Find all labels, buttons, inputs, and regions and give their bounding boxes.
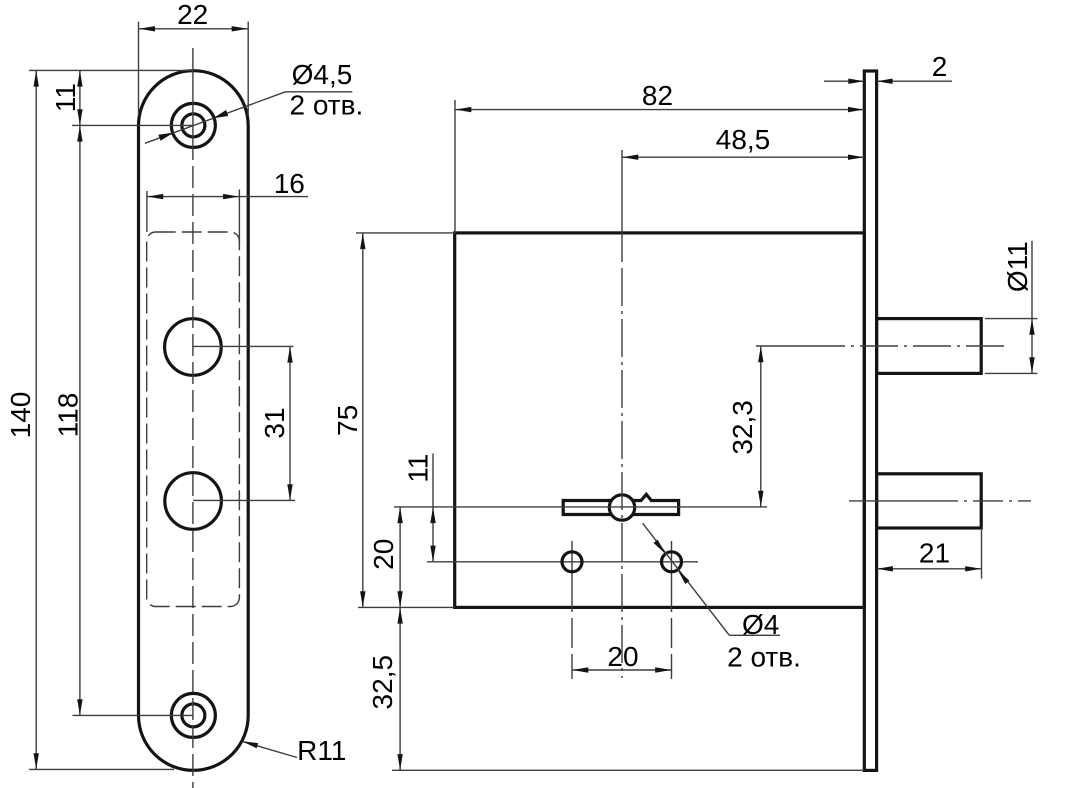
svg-text:20: 20 bbox=[368, 539, 399, 570]
svg-text:31: 31 bbox=[259, 407, 290, 438]
svg-text:140: 140 bbox=[5, 392, 36, 439]
svg-text:11: 11 bbox=[50, 83, 81, 112]
svg-text:22: 22 bbox=[177, 0, 208, 30]
svg-text:21: 21 bbox=[919, 538, 950, 569]
svg-text:16: 16 bbox=[274, 168, 305, 199]
svg-text:32,5: 32,5 bbox=[367, 655, 398, 710]
svg-text:Ø11: Ø11 bbox=[1002, 241, 1033, 292]
svg-text:2 отв.: 2 отв. bbox=[727, 641, 801, 672]
svg-text:75: 75 bbox=[332, 405, 363, 436]
svg-text:32,3: 32,3 bbox=[727, 400, 758, 455]
svg-text:2: 2 bbox=[932, 51, 948, 82]
svg-text:118: 118 bbox=[53, 393, 84, 438]
svg-text:82: 82 bbox=[642, 80, 673, 111]
svg-text:48,5: 48,5 bbox=[716, 124, 771, 155]
svg-text:11: 11 bbox=[403, 454, 434, 483]
svg-text:Ø4: Ø4 bbox=[742, 609, 779, 640]
svg-text:Ø4,5: Ø4,5 bbox=[292, 59, 353, 90]
svg-text:R11: R11 bbox=[297, 735, 346, 766]
svg-text:20: 20 bbox=[607, 641, 638, 672]
svg-text:2 отв.: 2 отв. bbox=[290, 90, 364, 121]
